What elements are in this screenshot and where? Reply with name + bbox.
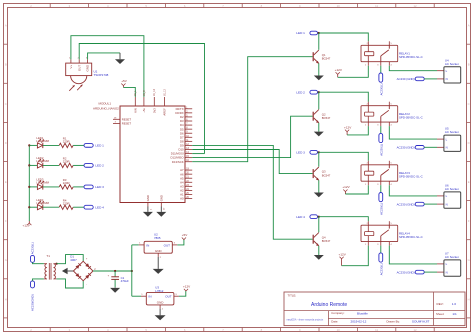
svg-text:H: H: [468, 297, 470, 301]
svg-text:220R: 220R: [63, 160, 70, 164]
net flag LED 4 (left): [84, 205, 104, 209]
node collector channel 1: [318, 32, 320, 34]
svg-text:LED 1: LED 1: [95, 144, 104, 148]
power flag +12V at LED bus (inverted): [23, 221, 32, 227]
svg-text:Drawn By:: Drawn By:: [387, 319, 401, 323]
svg-text:Company:: Company:: [331, 311, 344, 315]
svg-text:G: G: [5, 258, 7, 262]
wire U3 OUT to +12V: [179, 291, 186, 296]
svg-text:IN: IN: [149, 295, 152, 299]
svg-text:BC547: BC547: [322, 116, 331, 120]
svg-text:+12V: +12V: [183, 285, 191, 289]
net flag AC230 (GND) channel 2: [397, 146, 425, 150]
voltage regulator U3 L7812: [141, 292, 179, 310]
ground at Q2 emitter: [314, 132, 324, 137]
svg-text:GND: GND: [146, 195, 150, 201]
svg-text:OUT: OUT: [77, 65, 81, 72]
wire bus to LED1: [29, 144, 37, 146]
wire relay contact to AC socket L channel 4: [389, 246, 437, 264]
svg-text:H: H: [5, 297, 7, 301]
transistor Q4 BC547: [313, 233, 331, 246]
net flag LED 3 (channel 3): [296, 150, 317, 154]
net flag AC230 (GND) channel 4: [397, 270, 425, 274]
svg-text:ARDUINO_NANO2: ARDUINO_NANO2: [93, 107, 119, 111]
resistor R3 220R: [59, 178, 73, 189]
node T1 secondary top: [56, 263, 58, 265]
wire TSOP GND to ground: [88, 53, 120, 60]
svg-text:N: N: [446, 270, 448, 274]
svg-text:LED 2: LED 2: [95, 164, 104, 168]
wire R3 to net flag: [73, 186, 84, 188]
svg-text:F: F: [468, 219, 470, 223]
svg-text:+12V: +12V: [335, 68, 343, 72]
wire T1 secondary top to bridge AC1: [56, 255, 83, 264]
U3 L7812 labels: [155, 286, 163, 294]
wire emitter Q1 to ground: [318, 63, 320, 75]
svg-text:4007: 4007: [70, 258, 77, 262]
svg-text:12: 12: [413, 328, 417, 332]
svg-text:U1_14: U1_14: [154, 89, 156, 96]
svg-text:LED-3MM: LED-3MM: [36, 159, 49, 163]
svg-text:AC Socket: AC Socket: [445, 130, 459, 134]
bridge rectifier D1 4007: [70, 255, 96, 287]
power flag +12V channel 2: [344, 125, 352, 135]
svg-text:1.0: 1.0: [452, 302, 457, 306]
wire node to relay coil RELAY1: [319, 33, 369, 41]
voltage regulator U2 7805: [139, 241, 178, 259]
wire emitter Q3 to ground: [318, 180, 320, 192]
svg-text:N: N: [446, 77, 448, 81]
wire emitter Q4 to ground: [318, 246, 320, 255]
wire relay common to AC230(L) flag channel 3: [380, 185, 382, 192]
svg-text:E: E: [5, 180, 7, 184]
svg-text:AC230 (GND): AC230 (GND): [397, 202, 415, 206]
svg-text:11: 11: [375, 4, 378, 8]
ground at Q3 emitter: [314, 193, 324, 198]
relay RELAY4 SPD-05VDC-SL-C: [361, 221, 398, 246]
IR receiver U1 TSOP1738 body: [66, 58, 92, 84]
svg-text:AC230(L): AC230(L): [379, 263, 383, 275]
MODUL1 reference label: [93, 102, 119, 111]
U1 TSOP1738 reference label: [94, 70, 109, 77]
wire +5V flag to VIN pin: [123, 87, 135, 97]
AC socket U4: [437, 58, 461, 83]
relay RELAY3 SPD-05VDC-SL-C: [361, 161, 398, 186]
svg-text:G: G: [468, 258, 470, 262]
svg-text:LED 3: LED 3: [95, 185, 104, 189]
svg-text:Sheet:: Sheet:: [436, 312, 445, 316]
resistor R1 220R: [59, 137, 73, 148]
svg-text:LED 3: LED 3: [296, 150, 305, 154]
wire D12 to Q2 base: [192, 116, 312, 157]
wire U2 OUT to +5V: [177, 240, 184, 245]
LED3 LED-3MM: [36, 178, 49, 190]
wire collector Q2: [318, 92, 320, 109]
wire relay common to AC230(L) flag channel 4: [380, 246, 382, 253]
Arduino right digital pins D0-D13: [171, 107, 193, 164]
svg-text:AC230 (GND): AC230 (GND): [397, 146, 415, 150]
svg-text:LED-3MM: LED-3MM: [36, 139, 49, 143]
svg-text:LED 4: LED 4: [296, 215, 305, 219]
svg-text:D: D: [5, 141, 7, 145]
RELAY3 labels: [399, 171, 423, 179]
wire collector Q3: [318, 152, 320, 166]
resistor R2 220R: [59, 157, 73, 168]
svg-text:C: C: [5, 102, 7, 106]
AC socket U6: [437, 184, 461, 209]
svg-text:AC Socket: AC Socket: [445, 255, 459, 259]
svg-text:T1: T1: [46, 254, 50, 258]
ground at U3 GND: [155, 309, 166, 321]
net flag LED 3 (left): [84, 185, 104, 189]
wire node to relay coil RELAY4: [319, 217, 369, 222]
svg-text:GND: GND: [155, 249, 163, 253]
svg-text:LED 1: LED 1: [296, 31, 305, 35]
node collector channel 4: [318, 216, 320, 218]
svg-text:11: 11: [375, 328, 378, 332]
module MODUL1 ARDUINO_NANO2 body: [120, 106, 185, 203]
wire node to relay coil RELAY2: [319, 92, 369, 102]
svg-text:REV:: REV:: [437, 302, 444, 306]
wire D9 to Q4 base: [192, 145, 312, 239]
net flag LED 4 (channel 4): [296, 215, 317, 219]
svg-text:GND: GND: [86, 64, 90, 72]
svg-text:AC Socket: AC Socket: [445, 62, 459, 66]
svg-text:L7812: L7812: [155, 289, 163, 293]
wire D13 to Q1 base: [192, 57, 312, 162]
wire R2 to net flag: [73, 164, 84, 166]
wire AC230 (GND) flag to socket N channel 2: [424, 146, 437, 148]
net flag LED 2 (channel 2): [296, 90, 317, 94]
svg-text:A: A: [5, 24, 7, 28]
node collector channel 3: [318, 151, 320, 153]
wire LED1 to R1: [43, 144, 59, 146]
wire LED4 to R4: [43, 206, 59, 208]
svg-text:+12V: +12V: [344, 125, 352, 129]
svg-text:AC230(L): AC230(L): [379, 203, 383, 215]
wire +12V to relay coil 2 RELAY3: [345, 185, 368, 194]
svg-text:LED 2: LED 2: [296, 90, 305, 94]
RELAY1 labels: [399, 52, 423, 60]
wire R4 to net flag: [73, 206, 84, 208]
transistor Q1 BC547: [313, 50, 331, 63]
node regulator input rail: [131, 270, 133, 272]
capacitor C1 470uF: [108, 271, 129, 287]
wire bridge positive rail: [93, 270, 132, 272]
AC socket U5: [437, 127, 461, 152]
svg-text:GND: GND: [157, 301, 165, 305]
wire rail to U2 IN: [132, 244, 139, 246]
svg-text:AC230 (GND): AC230 (GND): [397, 270, 415, 274]
svg-text:A: A: [468, 24, 470, 28]
svg-text:BC547: BC547: [322, 239, 331, 243]
node LED bus junction 1: [28, 144, 30, 146]
net flag AC230(L) channel 4: [379, 253, 384, 275]
wire LED 3 flag to node: [318, 151, 319, 153]
svg-text:TSOP1738: TSOP1738: [94, 73, 109, 77]
wire collector Q1: [318, 33, 320, 50]
wire D11 stub to TSOP OUT net: [192, 153, 204, 155]
svg-text:C: C: [468, 102, 470, 106]
svg-text:N: N: [446, 202, 448, 206]
svg-text:LED 4: LED 4: [95, 205, 104, 209]
wire rail to regulator inputs: [131, 245, 133, 296]
transistor Q3 BC547: [313, 167, 331, 180]
ground at U2 GND: [153, 257, 164, 274]
svg-text:AC230 (GND): AC230 (GND): [397, 77, 415, 81]
net flag AC230 (GND) channel 3: [397, 202, 425, 206]
svg-text:D13/SCK: D13/SCK: [172, 160, 184, 164]
svg-text:10: 10: [337, 4, 341, 8]
relay RELAY1 SPD-05VDC-SL-C: [361, 41, 398, 66]
wire R1 to net flag: [73, 144, 84, 146]
svg-text:Date:: Date:: [331, 319, 338, 323]
wire relay contact to AC socket L channel 1: [389, 66, 437, 71]
ground at Arduino GND pin 1: [143, 207, 153, 217]
power flag +5V at U2 output: [182, 233, 189, 239]
power flag +12V channel 3: [342, 185, 350, 194]
svg-text:+5V: +5V: [121, 79, 128, 83]
wire relay contact to AC socket L channel 3: [389, 185, 437, 196]
wire +12V to relay coil 2 RELAY2: [347, 126, 368, 135]
svg-text:+5v: +5v: [142, 108, 146, 113]
svg-text:SPD-05VDC-SL-C: SPD-05VDC-SL-C: [399, 55, 423, 59]
Arduino right analog pins A7-A0: [180, 168, 192, 200]
svg-text:220R: 220R: [63, 140, 70, 144]
wire rail to U3 IN: [132, 295, 141, 297]
power flag +12V channel 1: [335, 68, 343, 77]
ground at Q4 emitter: [314, 255, 324, 260]
svg-text:RESET: RESET: [122, 122, 132, 126]
node LED bus junction 3: [28, 186, 30, 188]
svg-text:+5V: +5V: [182, 233, 189, 237]
svg-text:B: B: [5, 63, 7, 67]
node collector channel 2: [318, 91, 320, 93]
wire node to relay coil RELAY3: [319, 152, 369, 161]
svg-text:IN: IN: [146, 243, 149, 247]
wire +12V to relay coil 2 RELAY1: [338, 66, 369, 78]
wire +12V to relay coil 2 RELAY4: [342, 246, 369, 266]
svg-text:220R: 220R: [63, 181, 70, 185]
svg-text:12: 12: [413, 4, 417, 8]
power flag +12V channel 4: [339, 252, 347, 265]
svg-text:AC230(L): AC230(L): [379, 144, 383, 156]
ground at TSOP GND: [115, 53, 125, 64]
node LED bus junction 2: [28, 164, 30, 166]
node C1 top: [114, 270, 116, 272]
wire AC230 (GND) flag to socket N channel 4: [424, 271, 437, 273]
svg-text:D: D: [468, 141, 470, 145]
svg-text:AC230(L): AC230(L): [379, 83, 383, 95]
svg-text:AREF: AREF: [162, 108, 166, 116]
wire relay common to AC230(L) flag channel 1: [380, 66, 382, 73]
wire LED 2 flag to node: [318, 91, 319, 93]
svg-text:1/1: 1/1: [452, 312, 457, 316]
svg-text:V+: V+: [69, 65, 73, 69]
power flag +5V at Arduino VIN: [121, 79, 128, 87]
transistor Q2 BC547: [313, 110, 331, 123]
svg-text:U1_8: U1_8: [144, 90, 146, 96]
svg-text:BC547: BC547: [322, 173, 331, 177]
RELAY4 labels: [399, 232, 423, 240]
wire TSOP OUT to Arduino D11: [79, 44, 204, 154]
wire AC230(L) to T1 primary top: [33, 262, 44, 263]
svg-text:LED-3MM: LED-3MM: [36, 181, 49, 185]
Arduino bottom GND pins: [146, 195, 166, 210]
RELAY2 labels: [399, 112, 423, 120]
net flag LED 2 (left): [84, 164, 104, 168]
svg-text:10: 10: [337, 328, 341, 332]
ground at C1: [110, 287, 120, 292]
wire relay common to AC230(L) flag channel 2: [380, 126, 382, 133]
svg-text:E: E: [468, 180, 470, 184]
svg-text:+12V: +12V: [339, 252, 347, 256]
svg-text:470uF: 470uF: [121, 279, 129, 283]
svg-text:+12V: +12V: [23, 223, 31, 227]
Arduino left RESET pins: [113, 118, 131, 126]
svg-text:VIN: VIN: [133, 108, 137, 113]
svg-text:2019-02-12: 2019-02-12: [351, 320, 367, 324]
svg-text:220R: 220R: [63, 201, 70, 205]
svg-text:U1_13: U1_13: [164, 89, 166, 96]
svg-text:Arduino Remote: Arduino Remote: [311, 302, 347, 308]
svg-text:AC Socket: AC Socket: [445, 187, 459, 191]
svg-text:Blustifie: Blustifie: [357, 312, 368, 316]
wire LED 1 flag to node: [318, 32, 319, 34]
title block: [284, 292, 465, 326]
svg-text:A0: A0: [180, 197, 184, 201]
svg-text:SPD-05VDC-SL-C: SPD-05VDC-SL-C: [399, 175, 423, 179]
svg-text:B: B: [468, 63, 470, 67]
wire D10 to Q3 base: [192, 150, 312, 174]
net flag AC230(L) channel 2: [379, 133, 384, 155]
svg-text:U1_1: U1_1: [135, 90, 137, 96]
wire AC230(GND) to T1 primary bottom: [33, 279, 44, 281]
wire relay contact to AC socket L channel 2: [389, 126, 437, 139]
svg-text:easyEDA - share easyeda projec: easyEDA - share easyeda projects: [287, 318, 324, 321]
svg-text:OUT: OUT: [164, 243, 171, 247]
svg-text:AC230(GND): AC230(GND): [31, 294, 35, 311]
svg-text:OUT: OUT: [165, 295, 172, 299]
wire bus to LED3: [29, 186, 37, 188]
ground at Arduino GND pin 2: [156, 207, 166, 217]
IR input arrows: [69, 85, 82, 91]
wire LED3 to R3: [43, 186, 59, 188]
AC socket U7: [437, 252, 461, 277]
relay RELAY2 SPD-05VDC-SL-C: [361, 102, 398, 127]
U2 7805 labels: [154, 232, 161, 240]
svg-text:LED-3MM: LED-3MM: [36, 201, 49, 205]
resistor R4 220R: [59, 198, 73, 209]
svg-text:F: F: [5, 219, 7, 223]
node LED bus junction 4: [28, 206, 30, 208]
wire LED supply bus: [28, 145, 30, 221]
transformer T1: [44, 254, 57, 280]
net flag AC230(L) input: [31, 242, 35, 262]
net flag AC230 (GND) channel 1: [397, 77, 425, 81]
LED4 LED-3MM: [36, 198, 49, 210]
svg-text:SOUMYAJIT: SOUMYAJIT: [412, 320, 430, 324]
svg-text:3V3: 3V3: [152, 108, 156, 113]
ground at bridge negative: [62, 268, 74, 274]
title block texts: [287, 294, 457, 324]
wire AC230 (GND) flag to socket N channel 3: [424, 203, 437, 205]
net flag AC230(GND) input: [31, 281, 35, 311]
wire TSOP V+ to Arduino +5v pin: [71, 36, 144, 97]
net flag AC230(L) channel 1: [379, 73, 384, 95]
net flag LED 1 (channel 1): [296, 31, 317, 35]
svg-text:7805: 7805: [154, 236, 161, 240]
svg-text:AC230(L): AC230(L): [31, 242, 35, 254]
wire bus to LED2: [29, 164, 37, 166]
wire bus to LED4: [29, 206, 37, 208]
svg-text:MODUL1: MODUL1: [99, 102, 112, 106]
wire collector Q4: [318, 217, 320, 233]
net flag AC230(L) channel 3: [379, 193, 384, 215]
LED2 LED-3MM: [36, 156, 49, 168]
Arduino top pins VIN +5v 3V3 AREF: [133, 89, 166, 116]
wire emitter Q2 to ground: [318, 123, 320, 132]
wire T1 secondary bottom to bridge AC2: [56, 279, 83, 288]
svg-text:TITLE:: TITLE:: [288, 294, 297, 298]
wire LED 4 flag to node: [318, 216, 319, 218]
svg-text:+12V: +12V: [342, 185, 350, 189]
svg-text:SPD-05VDC-SL-C: SPD-05VDC-SL-C: [399, 235, 423, 239]
svg-text:GND: GND: [159, 195, 163, 201]
svg-text:N: N: [446, 146, 448, 150]
svg-text:BC547: BC547: [322, 57, 331, 61]
LED1 LED-3MM: [36, 136, 49, 148]
ground at Q1 emitter: [314, 76, 324, 81]
svg-text:SPD-05VDC-SL-C: SPD-05VDC-SL-C: [399, 116, 423, 120]
power flag +12V at U3 output: [183, 285, 191, 291]
net flag LED 1 (left): [84, 144, 104, 148]
wire AC230 (GND) flag to socket N channel 1: [424, 78, 437, 80]
wire LED2 to R2: [43, 164, 59, 166]
